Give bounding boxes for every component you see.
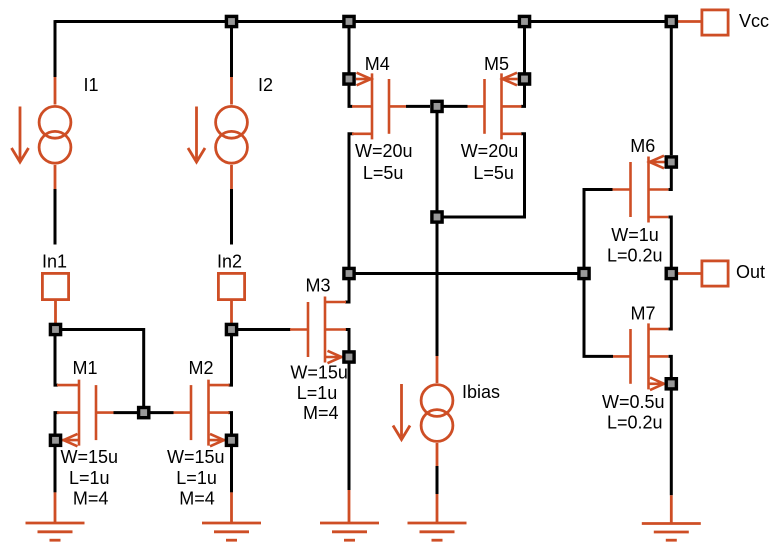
svg-text:W=0.5u: W=0.5u bbox=[602, 392, 665, 412]
wire M3 bulk to source junction bbox=[346, 330, 350, 358]
node junction rail-I2 bbox=[225, 15, 239, 29]
svg-text:W=20u: W=20u bbox=[355, 141, 413, 161]
svg-text:L=1u: L=1u bbox=[69, 468, 110, 488]
node M2 source-bulk bbox=[225, 434, 239, 448]
wire I1 top from rail bbox=[54, 20, 57, 77]
transistor M7 bbox=[613, 323, 668, 390]
wire M2 bulk to source junction bbox=[228, 413, 232, 441]
svg-text:M3: M3 bbox=[306, 276, 331, 296]
wire In1 junction to M1 M2 gate node bbox=[56, 330, 144, 413]
svg-text:L=0.2u: L=0.2u bbox=[607, 412, 663, 432]
svg-text:Vcc: Vcc bbox=[739, 11, 769, 31]
transistor M5 bbox=[468, 73, 522, 140]
wire In2 junction down to M2 drain bbox=[229, 330, 232, 386]
wire M2 source to ground bbox=[230, 440, 233, 492]
svg-text:Out: Out bbox=[736, 262, 765, 282]
wire I2 bottom to In2 pin bbox=[230, 189, 233, 245]
wire I1 bottom to In1 pin bbox=[54, 189, 57, 245]
svg-text:W=15u: W=15u bbox=[167, 447, 225, 467]
svg-text:In2: In2 bbox=[217, 252, 242, 272]
svg-text:L=1u: L=1u bbox=[176, 468, 217, 488]
node junction rail-M5 bbox=[518, 15, 532, 29]
transistor M6 bbox=[613, 156, 669, 223]
node B gate tie M6 M7 bbox=[577, 267, 591, 281]
wire node A down to M3 drain bbox=[345, 274, 349, 303]
node M6 source-bulk bbox=[665, 155, 679, 169]
wire M6 bulk tie bbox=[669, 168, 672, 189]
wire M5 bulk tie bbox=[521, 85, 525, 106]
node Out junction bbox=[665, 267, 679, 281]
wire In2 junction to M3 gate bbox=[232, 328, 291, 331]
node junction rail-M4 bbox=[342, 15, 356, 29]
wire M1 source to ground bbox=[54, 440, 57, 492]
svg-text:W=20u: W=20u bbox=[461, 141, 519, 161]
ground below M7 bbox=[642, 495, 701, 540]
ground below M3 bbox=[320, 490, 379, 540]
svg-text:L=0.2u: L=0.2u bbox=[607, 246, 663, 266]
current source Ibias bbox=[393, 356, 453, 466]
svg-text:M=4: M=4 bbox=[303, 403, 339, 423]
wire Out node down to M7 drain bbox=[669, 274, 672, 330]
wire M5 drain loop to node C bbox=[437, 134, 525, 217]
node G gates M4 M5 bbox=[430, 100, 444, 114]
wire I2 top from rail bbox=[230, 22, 233, 78]
svg-text:M7: M7 bbox=[631, 304, 656, 324]
current source I2 bbox=[188, 77, 247, 189]
wire In1 junction down to M1 drain bbox=[55, 330, 58, 386]
svg-text:W=15u: W=15u bbox=[290, 363, 348, 383]
svg-text:M=4: M=4 bbox=[73, 488, 109, 508]
node A M4 drain M3 drain bbox=[342, 267, 356, 281]
wire M1 bulk to source junction bbox=[55, 413, 59, 441]
transistor M4 bbox=[352, 73, 406, 140]
node C diode tie M5 bbox=[430, 210, 444, 224]
svg-text:M4: M4 bbox=[365, 54, 390, 74]
wire M7 bulk to source junction bbox=[669, 356, 672, 383]
wire M6 M7 gate tie through node B bbox=[584, 190, 613, 357]
wire rail to M4 source bbox=[348, 22, 351, 73]
wire Ibias bottom to ground bbox=[436, 466, 439, 494]
svg-text:L=5u: L=5u bbox=[473, 163, 514, 183]
wire M4 drain down to node A bbox=[349, 134, 354, 274]
port Out bbox=[678, 272, 701, 275]
svg-text:I2: I2 bbox=[258, 75, 273, 95]
current source I1 bbox=[12, 77, 71, 189]
ground below M2 bbox=[202, 492, 261, 540]
svg-text:M1: M1 bbox=[73, 358, 98, 378]
node M1 source-bulk bbox=[49, 434, 63, 448]
wire M4 gate to node G bbox=[406, 105, 430, 108]
transistor M2 bbox=[174, 380, 230, 447]
wire M3 source to ground bbox=[348, 357, 351, 490]
svg-text:M2: M2 bbox=[189, 358, 214, 378]
ground below Ibias bbox=[408, 494, 467, 540]
node M3 source-bulk bbox=[342, 350, 356, 364]
transistor M1 bbox=[57, 380, 114, 447]
node junction M4 source-bulk bbox=[342, 72, 356, 86]
svg-text:M=4: M=4 bbox=[179, 488, 215, 508]
svg-text:I1: I1 bbox=[84, 75, 99, 95]
port In1 bbox=[42, 273, 68, 299]
svg-text:L=5u: L=5u bbox=[363, 163, 404, 183]
svg-text:M6: M6 bbox=[630, 136, 655, 156]
wire rail to M5 source bbox=[523, 22, 526, 73]
svg-text:W=1u: W=1u bbox=[611, 225, 659, 245]
node In2 junction bbox=[225, 323, 239, 337]
node M1 M2 gates bbox=[137, 406, 151, 420]
svg-text:M5: M5 bbox=[484, 54, 509, 74]
node M7 source-bulk bbox=[665, 377, 679, 391]
svg-text:L=1u: L=1u bbox=[297, 383, 338, 403]
port In2 bbox=[218, 273, 244, 299]
wire node G down through node C to Ibias bbox=[436, 106, 439, 356]
svg-text:In1: In1 bbox=[42, 252, 67, 272]
node junction rail-M6-Vcc bbox=[665, 15, 679, 29]
node In1 junction bbox=[49, 323, 63, 337]
wire M1 gate / M2 gate to common node bbox=[114, 411, 174, 414]
transistor M3 bbox=[290, 297, 346, 364]
wire M6 drain down to Out node bbox=[669, 217, 672, 274]
wire M7 source to ground bbox=[670, 384, 673, 496]
wire M5 gate to node G bbox=[444, 105, 468, 108]
svg-text:W=15u: W=15u bbox=[61, 447, 119, 467]
wire node A to node B horizontal bbox=[349, 272, 584, 275]
ground below M1 bbox=[26, 492, 85, 540]
wire top rail Vcc net bbox=[55, 20, 671, 23]
wire M4 bulk tie bbox=[349, 85, 353, 106]
svg-text:Ibias: Ibias bbox=[462, 382, 500, 402]
port Vcc bbox=[678, 20, 701, 23]
wire rail to M6 source bbox=[670, 22, 673, 156]
node junction M5 source-bulk bbox=[518, 72, 532, 86]
